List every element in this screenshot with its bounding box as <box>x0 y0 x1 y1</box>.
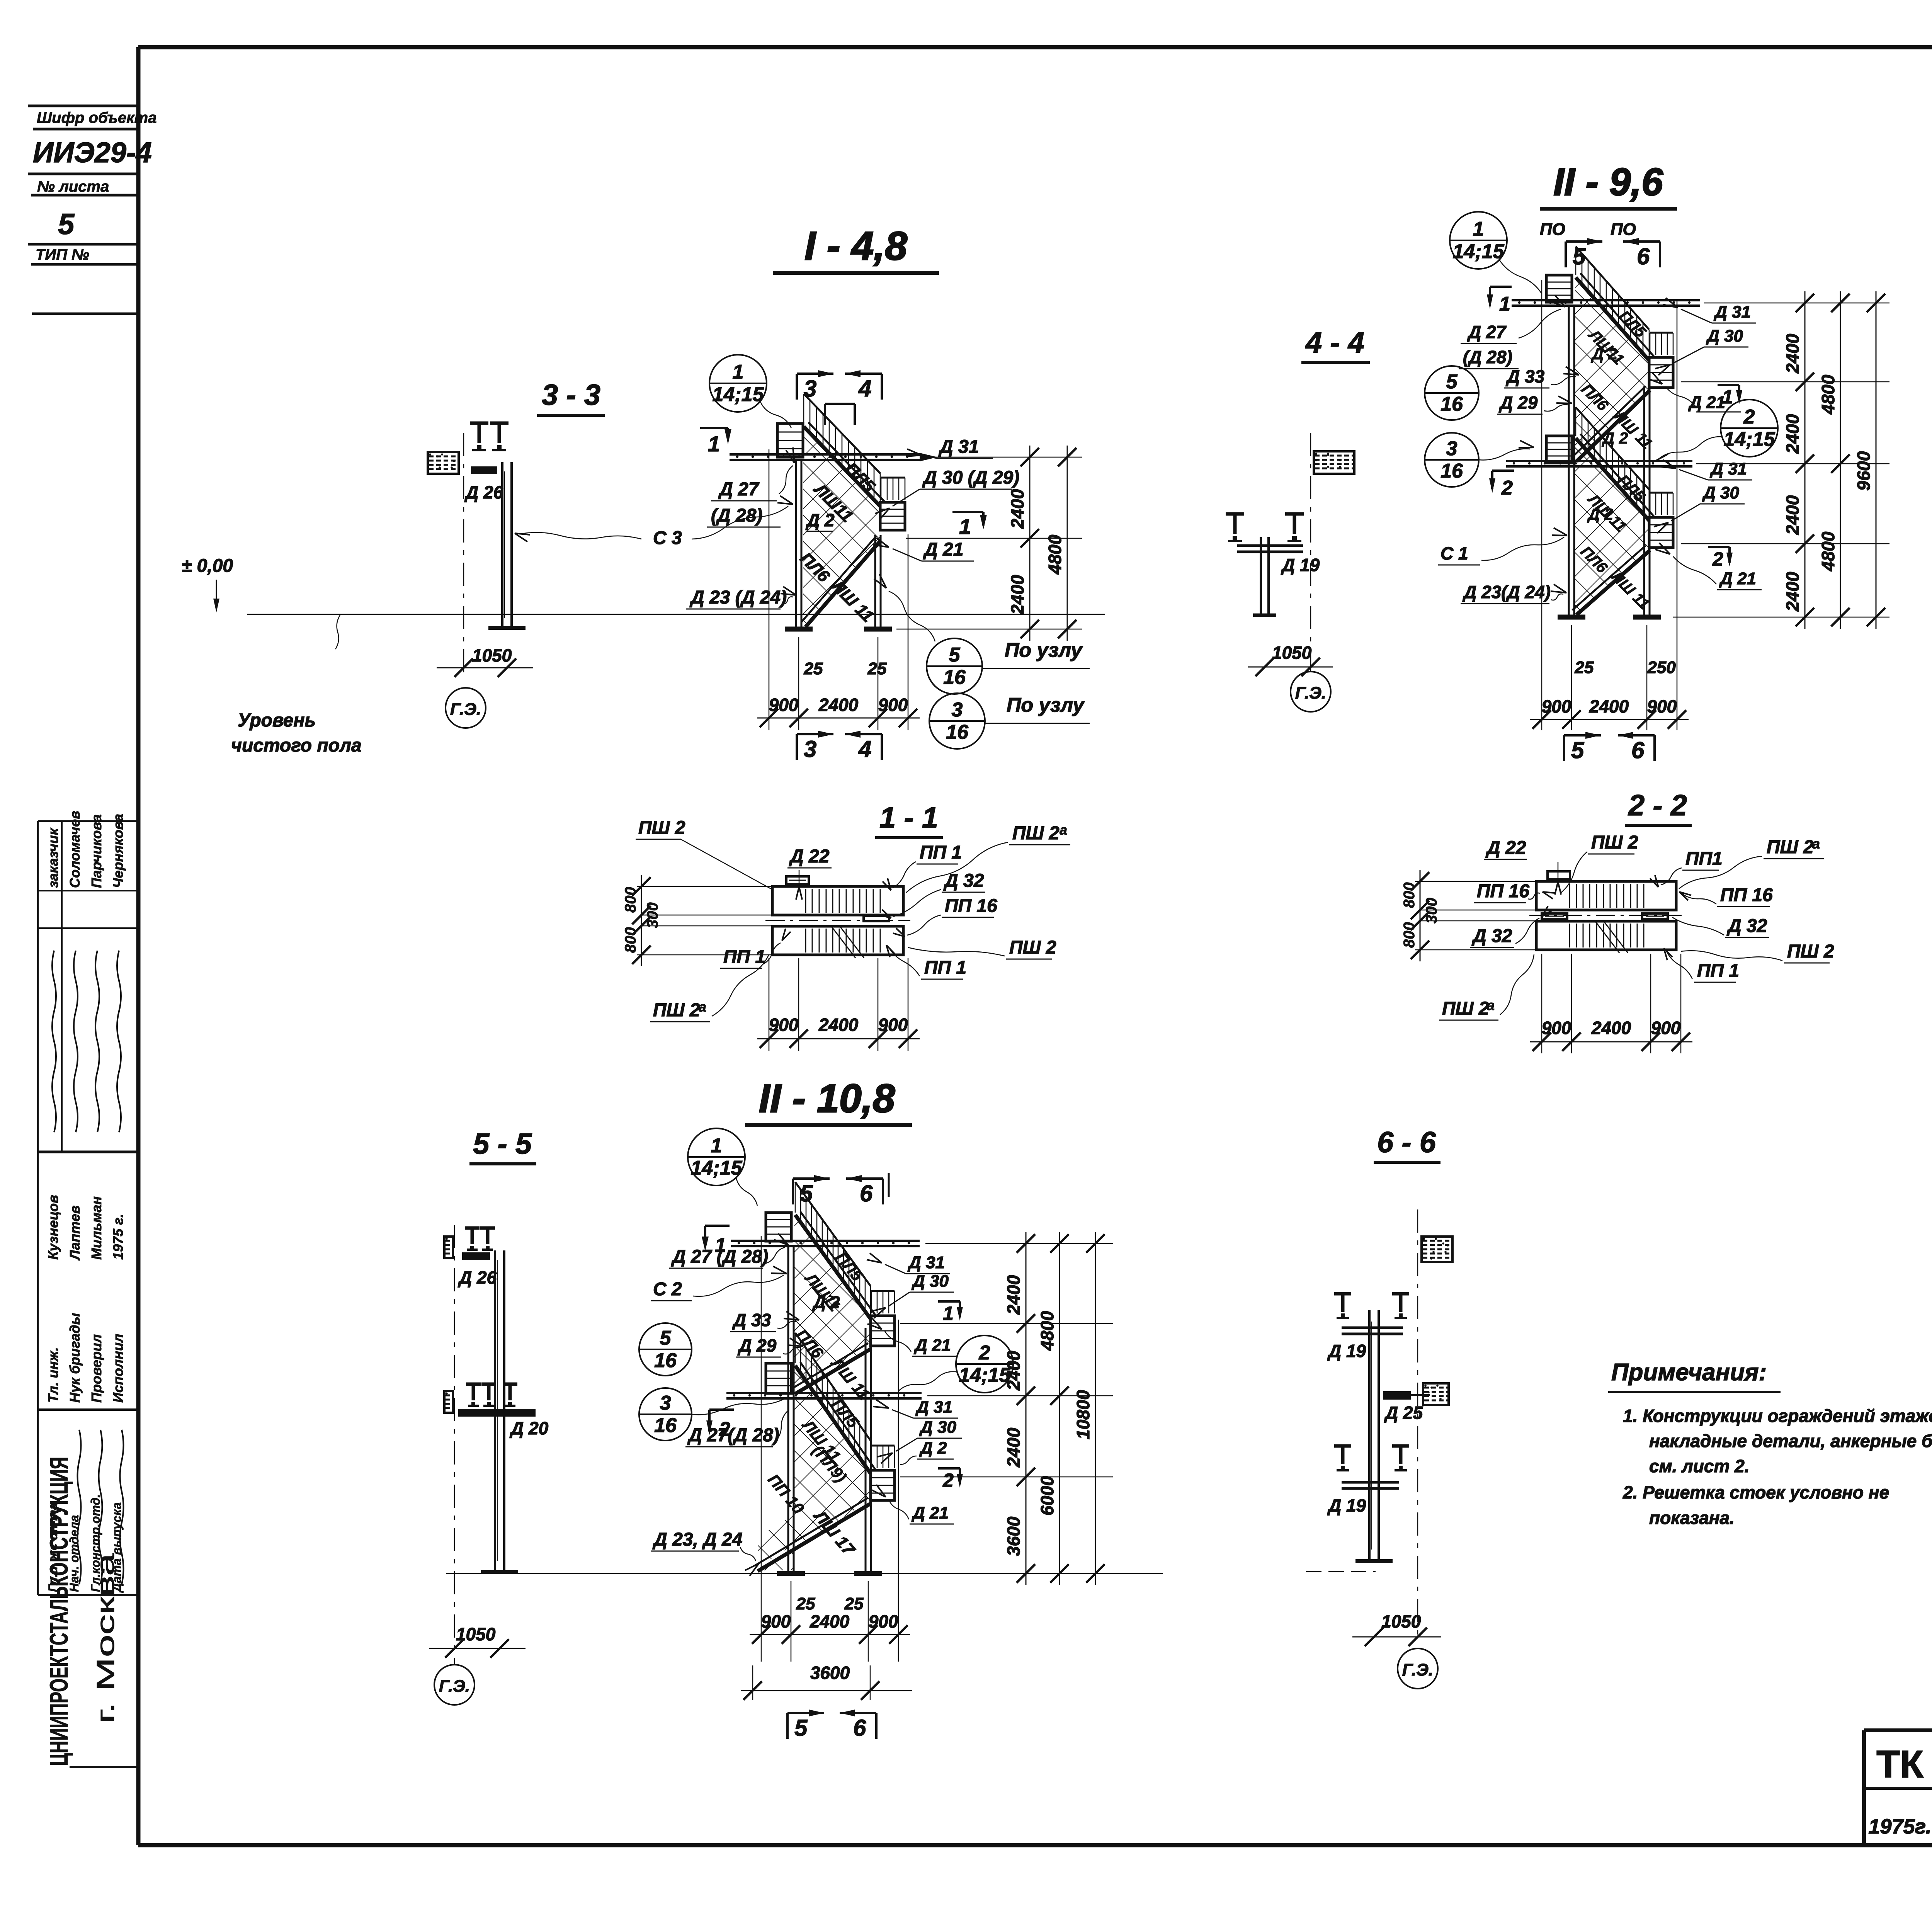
svg-text:3: 3 <box>660 1392 671 1414</box>
labels Д31 Д30 II-10,8 upper <box>867 1253 954 1318</box>
node circle 1/14;15 <box>688 1128 745 1186</box>
stamp: шифр объекта <box>28 106 156 314</box>
section 3-3 column C3 <box>488 462 526 628</box>
svg-text:5: 5 <box>58 208 75 241</box>
II-10,8 top section marks <box>793 1173 889 1206</box>
svg-text:а: а <box>1487 997 1495 1013</box>
svg-text:г. Москва: г. Москва <box>92 1553 119 1723</box>
svg-text:Проверил: Проверил <box>88 1334 104 1403</box>
section 3-3 title <box>537 379 605 415</box>
svg-text:3 - 3: 3 - 3 <box>542 379 600 412</box>
svg-text:6: 6 <box>1637 243 1650 269</box>
label Д21 right upper <box>1648 373 1741 412</box>
svg-text:2400: 2400 <box>1003 1275 1024 1315</box>
svg-text:ПП 1: ПП 1 <box>1697 961 1739 981</box>
svg-text:ПШ 2: ПШ 2 <box>638 818 685 838</box>
II-10,8 left node circles <box>639 1323 784 1441</box>
svg-text:Д 32: Д 32 <box>1726 916 1767 936</box>
II-10,8 node leader <box>736 1178 757 1206</box>
label Д29 II-10,8 <box>736 1335 803 1357</box>
svg-text:Д 29: Д 29 <box>737 1335 777 1356</box>
svg-text:Д 33: Д 33 <box>732 1310 771 1330</box>
label Д27 (Д28) upper <box>1459 295 1565 369</box>
II-9,6 bottom section marks <box>1564 732 1655 763</box>
svg-text:3600: 3600 <box>810 1663 850 1683</box>
svg-text:2400: 2400 <box>1003 1427 1024 1468</box>
svg-text:II - 10,8: II - 10,8 <box>759 1076 895 1121</box>
svg-text:Д 23, Д 24: Д 23, Д 24 <box>652 1529 742 1550</box>
svg-text:ПО: ПО <box>1540 220 1565 239</box>
II-10,8 flight labels <box>764 1249 873 1560</box>
plan 1-1 labels <box>636 818 1070 1022</box>
svg-text:300: 300 <box>644 902 661 928</box>
svg-text:4800: 4800 <box>1037 1311 1057 1351</box>
section 3-3 grid circle Г.Э <box>446 688 486 728</box>
II-9,6 lattice lower <box>1575 440 1648 614</box>
section 6-6 title <box>1374 1126 1440 1162</box>
svg-text:Д 2: Д 2 <box>919 1439 947 1458</box>
section 6-6 ground dash <box>1306 1571 1376 1572</box>
ground level line upper <box>247 614 1105 615</box>
label Уровень чистого пола <box>231 615 362 756</box>
labels Д31 Д30 right upper <box>1655 298 1756 375</box>
svg-text:По узлу: По узлу <box>1005 639 1083 662</box>
svg-text:Д 22: Д 22 <box>1485 838 1526 858</box>
label Д27(Д28) II-10,8 lower <box>685 1410 788 1447</box>
II-10,8 flight4 rail mesh ПП10 <box>758 1514 794 1567</box>
node circle 3/16 <box>929 693 985 749</box>
svg-text:По узлу: По узлу <box>1007 694 1085 716</box>
section 6-6 detail Д25 <box>1383 1383 1449 1423</box>
label Д21 right lower <box>1655 543 1762 590</box>
svg-text:1050: 1050 <box>1272 643 1312 663</box>
section 4-4 dim 1050 <box>1248 643 1333 676</box>
I-4,8 right dimension 2400/2400 <box>896 446 1082 641</box>
svg-text:Д 31: Д 31 <box>1713 303 1751 321</box>
I-4,8 node circles По узлу <box>874 574 1090 749</box>
svg-text:1050: 1050 <box>1381 1611 1421 1631</box>
label Д21 II-10,8 upper <box>867 1318 956 1356</box>
svg-text:Кузнецов: Кузнецов <box>45 1195 61 1260</box>
svg-text:Д 32: Д 32 <box>943 871 984 891</box>
svg-text:Д 31: Д 31 <box>915 1398 952 1417</box>
label Д21 II-10,8 lower <box>872 1485 954 1524</box>
svg-text:Д 30: Д 30 <box>1706 327 1743 345</box>
svg-text:2400: 2400 <box>1007 489 1027 529</box>
svg-text:Д 21: Д 21 <box>911 1504 949 1522</box>
II-10,8 flight 2 <box>796 1349 871 1393</box>
node circle 3/16 <box>639 1388 692 1441</box>
I-4,8 intermediate landing <box>880 502 905 530</box>
svg-text:2. Решетка стоек условно н: 2. Решетка стоек условно не <box>1622 1482 1889 1502</box>
svg-text:14;15: 14;15 <box>1724 428 1776 451</box>
svg-text:4800: 4800 <box>1818 374 1838 415</box>
svg-text:Д 19: Д 19 <box>1327 1341 1366 1361</box>
I-4,8 top platform ПШ2 <box>777 424 803 457</box>
section 5-5 grid circle <box>434 1665 474 1705</box>
svg-text:2400: 2400 <box>1782 572 1803 612</box>
section 4-4 title <box>1301 326 1370 362</box>
svg-text:ПП 1: ПП 1 <box>924 958 966 978</box>
svg-text:25: 25 <box>804 659 823 678</box>
section 6-6 top bracket Д19 <box>1327 1294 1409 1361</box>
svg-text:2400: 2400 <box>1591 1018 1631 1038</box>
svg-text:14;15: 14;15 <box>713 383 764 406</box>
svg-text:Д 20: Д 20 <box>509 1418 549 1438</box>
node circle 1/14;15 <box>1450 212 1507 269</box>
labels Д31 Д30 Д2 II-10,8 lower <box>873 1398 962 1465</box>
I-4,8 top floor beam Д31 <box>730 453 920 456</box>
svg-text:Д 32: Д 32 <box>1471 926 1512 946</box>
svg-text:3: 3 <box>804 376 816 401</box>
node circle 1/14;15 <box>709 355 767 412</box>
I-4,8 column right <box>874 535 876 629</box>
section 3-3 axis line <box>463 433 464 678</box>
svg-text:Д 23 (Д 24): Д 23 (Д 24) <box>689 587 787 608</box>
svg-text:Д 27(Д 28): Д 27(Д 28) <box>687 1425 779 1446</box>
svg-text:Д 22: Д 22 <box>789 846 830 867</box>
svg-text:С 2: С 2 <box>653 1279 682 1300</box>
section 3-3 wall block <box>428 452 459 474</box>
svg-text:800: 800 <box>622 887 639 913</box>
I-4,8 top section marks 3 4 <box>797 370 882 425</box>
svg-text:Шифр объекта: Шифр объекта <box>37 109 156 126</box>
label Д23 (Д24) <box>686 587 796 609</box>
svg-text:ПШ 2: ПШ 2 <box>653 1000 700 1021</box>
svg-text:900: 900 <box>1542 1018 1571 1038</box>
II-9,6 landing 1 <box>1649 357 1673 388</box>
I-4,8 bottom dimensions 900/2400/900 <box>757 449 920 730</box>
stamp: department block <box>38 1410 136 1595</box>
svg-text:Д 2: Д 2 <box>1587 505 1613 523</box>
svg-text:ТК: ТК <box>1876 1743 1924 1786</box>
svg-text:№ листа: № листа <box>37 178 109 195</box>
node circle 5/16 <box>1425 366 1479 420</box>
svg-text:ПШ 2: ПШ 2 <box>1009 937 1056 958</box>
svg-text:заказчик: заказчик <box>45 827 61 888</box>
svg-text:Д 26: Д 26 <box>464 482 503 502</box>
svg-text:ПШ 2: ПШ 2 <box>1012 823 1060 844</box>
svg-text:± 0,00: ± 0,00 <box>182 556 233 576</box>
svg-text:Д 23(Д 24): Д 23(Д 24) <box>1462 582 1551 602</box>
section 3-3 channel profiles <box>470 423 509 450</box>
svg-text:Д 2: Д 2 <box>1591 345 1617 363</box>
svg-text:2400: 2400 <box>818 1015 859 1035</box>
svg-text:Д 19: Д 19 <box>1327 1495 1366 1516</box>
svg-text:900: 900 <box>878 695 908 715</box>
II-10,8 mid platform <box>766 1363 791 1393</box>
section 4-4 column Д19 assembly <box>1226 514 1320 615</box>
svg-text:16: 16 <box>1440 393 1463 415</box>
II-10,8 bottom dimensions <box>741 1236 912 1700</box>
section 4-4 concrete block <box>1314 451 1354 474</box>
svg-text:900: 900 <box>769 695 799 715</box>
I-4,8 section mark 1 top-left <box>700 428 731 456</box>
svg-text:25: 25 <box>796 1594 815 1613</box>
I-4,8 node leader <box>760 402 791 428</box>
svg-text:3600: 3600 <box>1003 1516 1024 1556</box>
notes Примечания <box>1608 1359 1932 1528</box>
svg-text:4 - 4: 4 - 4 <box>1305 326 1364 359</box>
svg-text:ПП 1: ПП 1 <box>723 947 765 967</box>
section 6-6 grid circle <box>1398 1648 1438 1689</box>
svg-text:Нук бригады: Нук бригады <box>67 1313 83 1403</box>
svg-text:(Д 28): (Д 28) <box>711 505 762 526</box>
section 5-5 mid bracket Д20 <box>444 1384 549 1438</box>
II-9,6 lattice upper <box>1575 279 1648 461</box>
II-10,8 node 2 right leader <box>898 1372 956 1391</box>
svg-text:Д 21: Д 21 <box>1688 393 1725 412</box>
svg-text:1: 1 <box>708 432 720 456</box>
svg-text:16: 16 <box>943 666 966 689</box>
svg-text:2400: 2400 <box>810 1611 850 1631</box>
plan 1-1 title <box>875 801 943 838</box>
svg-text:5: 5 <box>949 644 961 666</box>
II-9,6 node 2 leader <box>1658 437 1721 460</box>
svg-text:Д 31: Д 31 <box>938 437 979 457</box>
I-4,8 column C3 left <box>795 459 797 629</box>
II-9,6 left column C1 <box>1568 305 1570 617</box>
label Д31 right <box>906 437 993 458</box>
II-9,6 top beam <box>1512 299 1700 301</box>
svg-text:900: 900 <box>761 1611 791 1631</box>
II-10,8 mark 1 left <box>702 1226 730 1257</box>
svg-text:6 - 6: 6 - 6 <box>1377 1126 1436 1159</box>
section 5-5 top bracket <box>444 1228 497 1288</box>
I-4,8 lower flight ЛШ11 <box>806 540 881 627</box>
svg-text:2400: 2400 <box>1007 575 1027 615</box>
svg-text:Д 19: Д 19 <box>1281 555 1320 575</box>
svg-text:Лаптев: Лаптев <box>67 1206 83 1261</box>
svg-text:2: 2 <box>1743 406 1755 428</box>
svg-text:5: 5 <box>1571 737 1585 763</box>
svg-text:1050: 1050 <box>472 645 512 665</box>
svg-text:900: 900 <box>1542 696 1571 716</box>
II-10,8 right column <box>865 1328 867 1573</box>
svg-text:2400: 2400 <box>1782 495 1803 535</box>
svg-text:Г.Э.: Г.Э. <box>450 700 481 719</box>
svg-text:чистого пола: чистого пола <box>231 735 362 756</box>
svg-text:Д 26: Д 26 <box>457 1267 497 1288</box>
svg-text:4: 4 <box>858 376 871 401</box>
section 3-3 dim 1050 <box>437 645 533 677</box>
II-10,8 flight 1 <box>795 1215 871 1319</box>
svg-text:25: 25 <box>844 1594 864 1613</box>
svg-text:900: 900 <box>878 1015 908 1035</box>
II-9,6 right dimensions <box>1673 291 1889 629</box>
svg-text:ТИП №: ТИП № <box>36 246 89 263</box>
II-9,6 mark 1 right <box>1718 385 1742 408</box>
svg-text:ПП 16: ПП 16 <box>1477 881 1529 902</box>
svg-text:ИИЭ29-4: ИИЭ29-4 <box>33 136 152 168</box>
svg-text:ПП 16: ПП 16 <box>1720 885 1773 905</box>
svg-text:С 1: С 1 <box>1440 543 1468 563</box>
II-9,6 mark 1 left <box>1487 287 1512 315</box>
svg-text:16: 16 <box>946 721 969 743</box>
section 5-5 dim 1050 <box>429 1624 526 1658</box>
svg-text:5: 5 <box>800 1180 813 1206</box>
ground level line lower <box>446 1573 1163 1574</box>
II-10,8 flight 3 <box>795 1366 871 1473</box>
II-10,8 top platform <box>766 1213 791 1241</box>
svg-text:показана.: показана. <box>1649 1508 1735 1528</box>
svg-text:1: 1 <box>1722 386 1733 408</box>
svg-text:900: 900 <box>769 1015 799 1035</box>
II-9,6 flight 3 <box>1576 438 1649 520</box>
svg-text:Д 31: Д 31 <box>907 1253 945 1272</box>
svg-text:1975 г.: 1975 г. <box>110 1214 126 1260</box>
svg-text:6: 6 <box>860 1180 873 1206</box>
node circle 2/14;15 <box>956 1335 1013 1393</box>
svg-text:Исполнил: Исполнил <box>110 1334 126 1403</box>
section 6-6 lower bracket Д19 <box>1327 1446 1409 1516</box>
label Д33 II-10,8 <box>730 1310 799 1332</box>
II-9,6 top section marks <box>1540 220 1660 269</box>
label Д27 (Д28) II-10,8 upper <box>669 1233 788 1268</box>
II-10,8 lattice upper <box>794 1216 870 1393</box>
svg-text:Д 30: Д 30 <box>911 1272 949 1291</box>
svg-text:Д 2: Д 2 <box>1602 429 1628 447</box>
svg-text:14;15: 14;15 <box>959 1364 1011 1386</box>
svg-text:6: 6 <box>1631 737 1645 763</box>
svg-text:25: 25 <box>1575 658 1594 677</box>
svg-text:16: 16 <box>654 1414 677 1437</box>
II-9,6 flight 4 <box>1577 550 1650 615</box>
II-10,8 mid beam <box>726 1392 922 1394</box>
svg-text:2400: 2400 <box>1782 414 1803 454</box>
II-10,8 mark 1 right <box>938 1301 963 1324</box>
label С2 <box>651 1266 787 1301</box>
svg-text:16: 16 <box>654 1349 677 1372</box>
II-10,8 top beam <box>731 1240 920 1242</box>
svg-text:900: 900 <box>1651 1018 1681 1038</box>
II-10,8 landing 1 <box>871 1316 895 1346</box>
svg-text:Уровень: Уровень <box>238 710 316 731</box>
svg-text:Д 27: Д 27 <box>718 479 760 500</box>
section 4-4 axis <box>1310 433 1311 678</box>
svg-text:300: 300 <box>1423 898 1440 924</box>
svg-text:Д 30 (Д 29): Д 30 (Д 29) <box>922 468 1019 488</box>
II-9,6 mark 2 left <box>1489 471 1514 499</box>
svg-text:а: а <box>1060 822 1067 838</box>
I-4,8 section mark 1 right <box>952 512 987 539</box>
svg-text:800: 800 <box>1401 922 1418 948</box>
svg-text:2400: 2400 <box>1782 333 1803 374</box>
svg-text:Чернякова: Чернякова <box>110 814 126 888</box>
svg-text:1975г.: 1975г. <box>1868 1815 1931 1838</box>
I-4,8 railing lattice Д2/ПЛ6 <box>803 427 881 626</box>
svg-text:9600: 9600 <box>1854 451 1874 491</box>
II-9,6 right column <box>1643 386 1645 617</box>
II-9,6 left node circles <box>1425 366 1534 487</box>
svg-text:4: 4 <box>858 736 871 762</box>
plan 1-1 bottom dims <box>757 958 920 1051</box>
plan 2-2 drawing <box>1529 871 1683 953</box>
label Д23(Д24) II-9,6 <box>1461 582 1566 604</box>
svg-text:ПП 16: ПП 16 <box>945 896 997 916</box>
II-10,8 flight 4 ЛШ17 <box>758 1503 871 1571</box>
svg-text:Д 27 (Д 28): Д 27 (Д 28) <box>671 1247 768 1267</box>
svg-text:Д 33: Д 33 <box>1505 366 1545 386</box>
svg-text:Д 30: Д 30 <box>1702 483 1739 502</box>
svg-text:С 3: С 3 <box>653 528 682 548</box>
svg-text:1: 1 <box>1499 293 1510 315</box>
plan 2-2 labels <box>1439 832 1834 1020</box>
svg-text:Г.Э.: Г.Э. <box>439 1677 470 1696</box>
I-4,8 flight labels <box>796 459 879 626</box>
svg-text:ЦНИИПРОЕКТСТАЛЬКОНСТРУКЦИЯ: ЦНИИПРОЕКТСТАЛЬКОНСТРУКЦИЯ <box>44 1457 73 1766</box>
2-2 title <box>1625 789 1692 825</box>
stamp: organization vertical text <box>44 1457 136 1767</box>
II-9,6 mid platform <box>1546 436 1572 463</box>
svg-text:2400: 2400 <box>818 695 859 715</box>
scheme II-10,8 title <box>745 1076 912 1125</box>
svg-text:(Д 28): (Д 28) <box>1463 347 1512 367</box>
svg-text:6000: 6000 <box>1037 1476 1057 1516</box>
plan 1-1 left dims 800/300/800 <box>622 875 771 966</box>
node circle 5/16 <box>639 1323 692 1376</box>
svg-text:2400: 2400 <box>1589 696 1629 716</box>
svg-text:5: 5 <box>794 1715 808 1741</box>
svg-text:2: 2 <box>942 1470 954 1491</box>
II-10,8 mark 2 left <box>706 1410 734 1441</box>
section 5-5 title <box>469 1128 536 1164</box>
II-9,6 flight labels <box>1577 307 1655 612</box>
section 6-6 concrete top <box>1422 1237 1452 1262</box>
svg-text:6: 6 <box>853 1715 866 1741</box>
label Д21 <box>873 538 974 561</box>
svg-text:3: 3 <box>952 699 963 721</box>
svg-text:а: а <box>699 999 706 1015</box>
svg-text:14;15: 14;15 <box>691 1157 743 1179</box>
II-10,8 mark 2 right <box>938 1468 963 1491</box>
svg-text:25: 25 <box>867 659 887 678</box>
II-9,6 mid beam <box>1506 460 1692 462</box>
section 5-5 axis <box>454 1225 455 1665</box>
svg-text:Д 21: Д 21 <box>913 1336 951 1355</box>
svg-text:250: 250 <box>1647 658 1676 677</box>
svg-text:ПШ 2: ПШ 2 <box>1591 832 1638 853</box>
svg-text:накладные детали, анкерные бол: накладные детали, анкерные болты <box>1649 1431 1932 1451</box>
II-9,6 mark 2 right <box>1708 547 1733 570</box>
node circle 2/14;15 <box>1721 400 1778 457</box>
label Д29 <box>1497 393 1572 414</box>
svg-text:4800: 4800 <box>1818 531 1838 572</box>
scheme II-9,6 title <box>1540 160 1677 209</box>
svg-text:1: 1 <box>711 1135 722 1157</box>
svg-text:II - 9,6: II - 9,6 <box>1553 160 1663 204</box>
svg-text:4800: 4800 <box>1045 534 1065 575</box>
label Д30 (Д29) <box>875 468 1019 520</box>
svg-text:5 - 5: 5 - 5 <box>473 1128 532 1160</box>
label С3 with leaders <box>515 496 793 548</box>
svg-text:900: 900 <box>869 1611 898 1631</box>
svg-text:ПП 1: ПП 1 <box>920 842 962 863</box>
plan 2-2 bottom dims <box>1530 954 1692 1053</box>
label Д23, Д24 <box>651 1529 759 1576</box>
node circle 3/16 <box>1425 433 1479 487</box>
II-10,8 left column C2 <box>787 1246 789 1573</box>
section 5-5 column <box>481 1250 518 1572</box>
title block <box>1864 1730 1932 1845</box>
II-10,8 lattice lower <box>758 1368 870 1570</box>
section 6-6 axis <box>1417 1209 1418 1642</box>
svg-text:1: 1 <box>943 1303 954 1324</box>
plan 1-1 drawing <box>765 876 910 958</box>
svg-text:Д 2: Д 2 <box>812 1293 840 1312</box>
svg-text:ПШ 2: ПШ 2 <box>1442 998 1489 1019</box>
label С1 <box>1438 528 1567 565</box>
